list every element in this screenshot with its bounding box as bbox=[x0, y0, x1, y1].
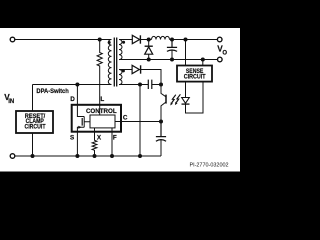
node: sense tap top rail bbox=[184, 38, 188, 42]
internal MOSFET bbox=[77, 105, 90, 132]
node: catch diode anode bbox=[147, 58, 151, 62]
svg-text:DPA-Switch: DPA-Switch bbox=[36, 88, 69, 95]
wire sense top lead bbox=[185, 40, 187, 66]
wire bias return to ground rail bbox=[139, 85, 141, 157]
node: line-sense junction bbox=[98, 38, 102, 42]
node: opto collector bbox=[159, 83, 163, 87]
transformer bias winding S2 bbox=[119, 70, 122, 85]
node: bias return junction bbox=[138, 83, 142, 87]
svg-text:CIRCUIT: CIRCUIT bbox=[25, 123, 46, 130]
output + terminal bbox=[217, 37, 222, 42]
output - terminal bbox=[218, 57, 223, 62]
bias diode D3 bbox=[132, 65, 139, 73]
control block inner box bbox=[90, 115, 115, 128]
background black bbox=[0, 0, 240, 200]
resistor R_LS (line sense) bbox=[97, 40, 102, 105]
wire secondary top to rectifier bbox=[119, 39, 132, 41]
svg-text:F: F bbox=[113, 135, 117, 142]
C pin bypass capacitor C3 (polarized) bbox=[156, 122, 166, 137]
secondary S1 polarity dot bbox=[122, 41, 125, 44]
wire clamp top lead bbox=[33, 85, 112, 112]
wire bias cap to collector node bbox=[152, 84, 161, 86]
node: S ground bbox=[75, 154, 79, 158]
output inductor L1 bbox=[152, 36, 170, 39]
svg-text:C: C bbox=[123, 114, 128, 121]
wire bias winding bottom bbox=[119, 84, 148, 86]
svg-text:S: S bbox=[70, 135, 74, 142]
input - terminal bbox=[10, 154, 15, 159]
node: clamp ground bbox=[31, 154, 35, 158]
X pin resistor R_X bbox=[92, 128, 97, 156]
wire F pin bbox=[111, 128, 113, 156]
svg-text:CIRCUIT: CIRCUIT bbox=[184, 74, 206, 81]
wire rectifier to inductor bbox=[140, 39, 152, 41]
transformer T1 primary winding bbox=[108, 40, 111, 85]
transformer core bbox=[114, 38, 116, 87]
node: F ground bbox=[110, 154, 114, 158]
node: output cap top bbox=[170, 38, 174, 42]
node: bias return ground bbox=[138, 154, 142, 158]
optocoupler LED bbox=[182, 98, 190, 104]
node: X ground bbox=[93, 154, 97, 158]
wire sense lower lead bbox=[202, 60, 204, 66]
opto light arrows bbox=[172, 94, 181, 103]
wire opto LED anode lead bbox=[185, 82, 187, 98]
svg-text:IN: IN bbox=[8, 99, 14, 105]
svg-text:L: L bbox=[100, 96, 104, 103]
wire inductor to + output bbox=[170, 39, 218, 41]
optocoupler phototransistor Q1 bbox=[161, 85, 166, 122]
svg-text:D: D bbox=[70, 96, 75, 103]
wire L pin inside bbox=[99, 105, 101, 115]
rectifier diode D1 bbox=[132, 35, 139, 43]
output capacitor C1 (polarized) bbox=[167, 40, 177, 48]
wire C pin bbox=[115, 121, 161, 123]
wire bias diode to opto collector node bbox=[139, 70, 161, 85]
reset clamp circuit box U2 bbox=[16, 111, 53, 133]
transformer secondary winding S1 bbox=[119, 40, 122, 60]
white drawing area bbox=[0, 28, 240, 172]
wire clamp bottom lead bbox=[32, 133, 34, 156]
wire top input rail bbox=[15, 39, 112, 41]
lower output rail bbox=[119, 59, 218, 61]
wire LED cathode return loop bbox=[186, 82, 204, 113]
wire S pin bbox=[76, 132, 78, 156]
bias capacitor C2 bbox=[148, 80, 152, 89]
primary polarity dot bbox=[108, 41, 111, 44]
svg-text:PI-2770-032002: PI-2770-032002 bbox=[189, 162, 228, 168]
sense circuit box U3 bbox=[177, 66, 212, 82]
node: catch diode cathode bbox=[147, 38, 151, 42]
node: sense tap lower rail bbox=[201, 58, 205, 62]
node: drain junction bbox=[75, 83, 79, 87]
svg-text:CONTROL: CONTROL bbox=[86, 108, 117, 115]
DPA-Switch IC box U1 bbox=[72, 105, 121, 132]
bottom ground rail bbox=[15, 155, 161, 157]
svg-text:O: O bbox=[222, 50, 227, 56]
node: C pin junction bbox=[159, 120, 163, 124]
catch diode D2 bbox=[148, 40, 150, 47]
node: output cap bottom bbox=[170, 58, 174, 62]
bias winding polarity dot bbox=[122, 69, 125, 72]
wire bias diode anode bbox=[119, 69, 133, 71]
wire D pin bbox=[76, 85, 78, 105]
input + terminal bbox=[10, 37, 15, 42]
